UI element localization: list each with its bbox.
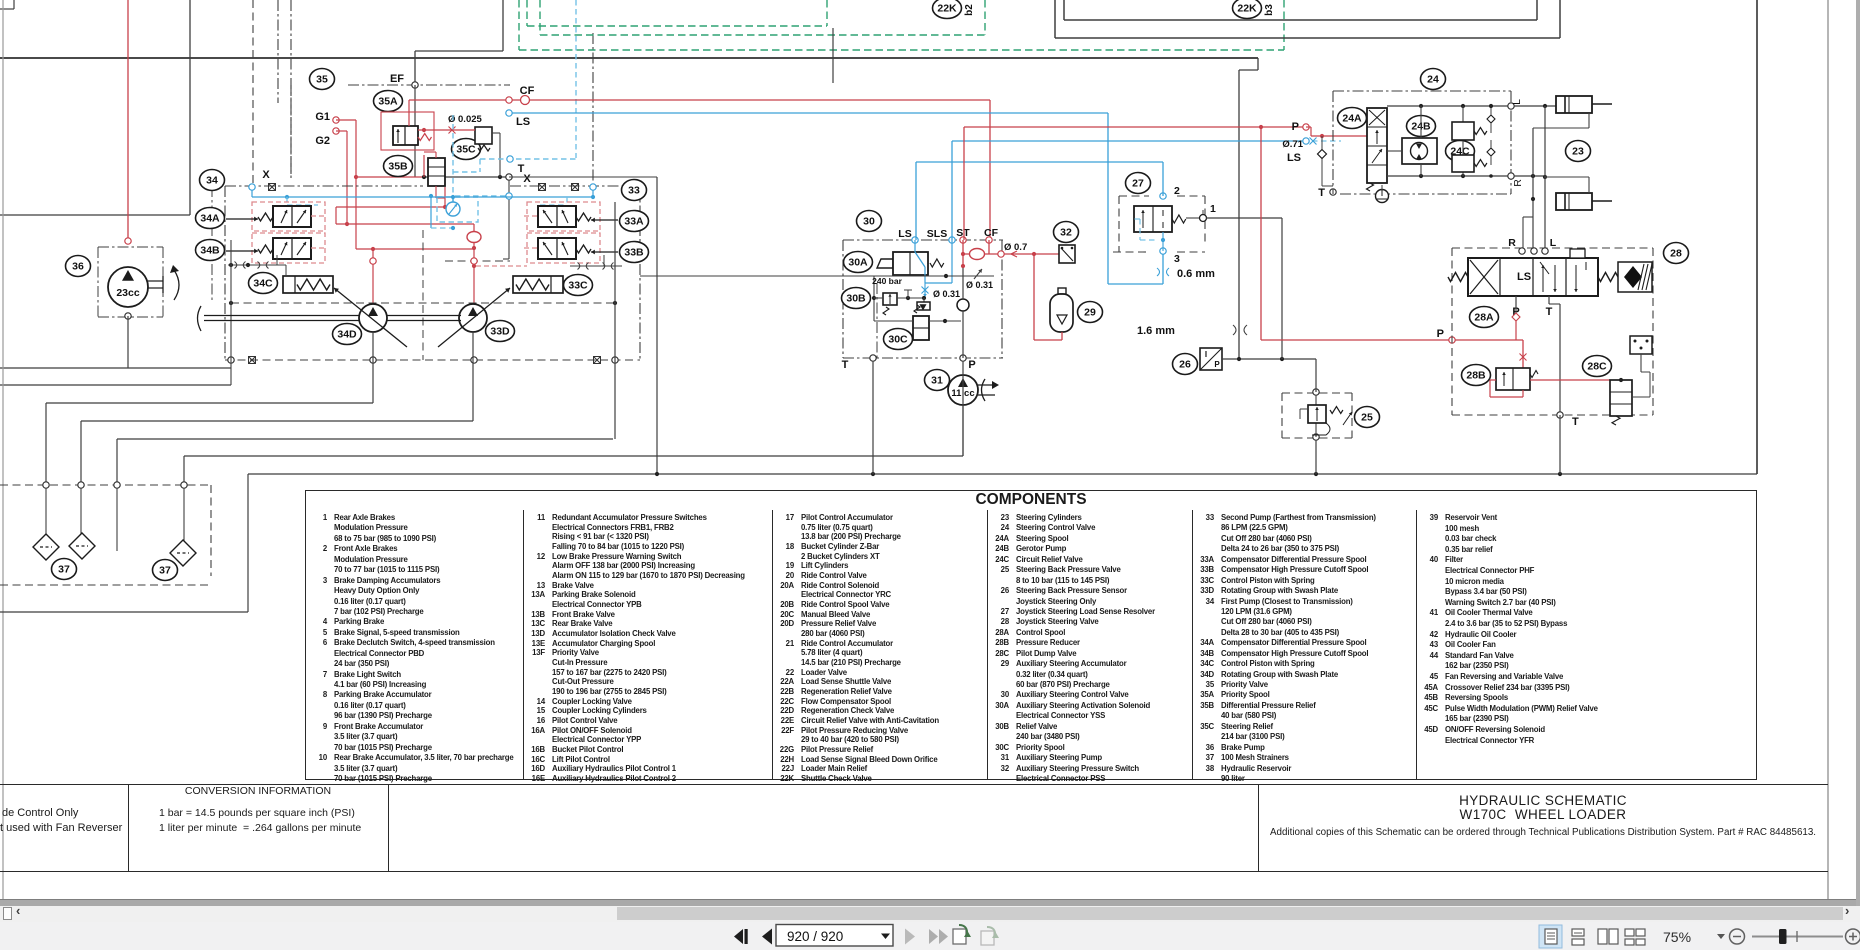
svg-text:920 / 920: 920 / 920 [787,929,843,944]
svg-text:75%: 75% [1663,929,1691,945]
